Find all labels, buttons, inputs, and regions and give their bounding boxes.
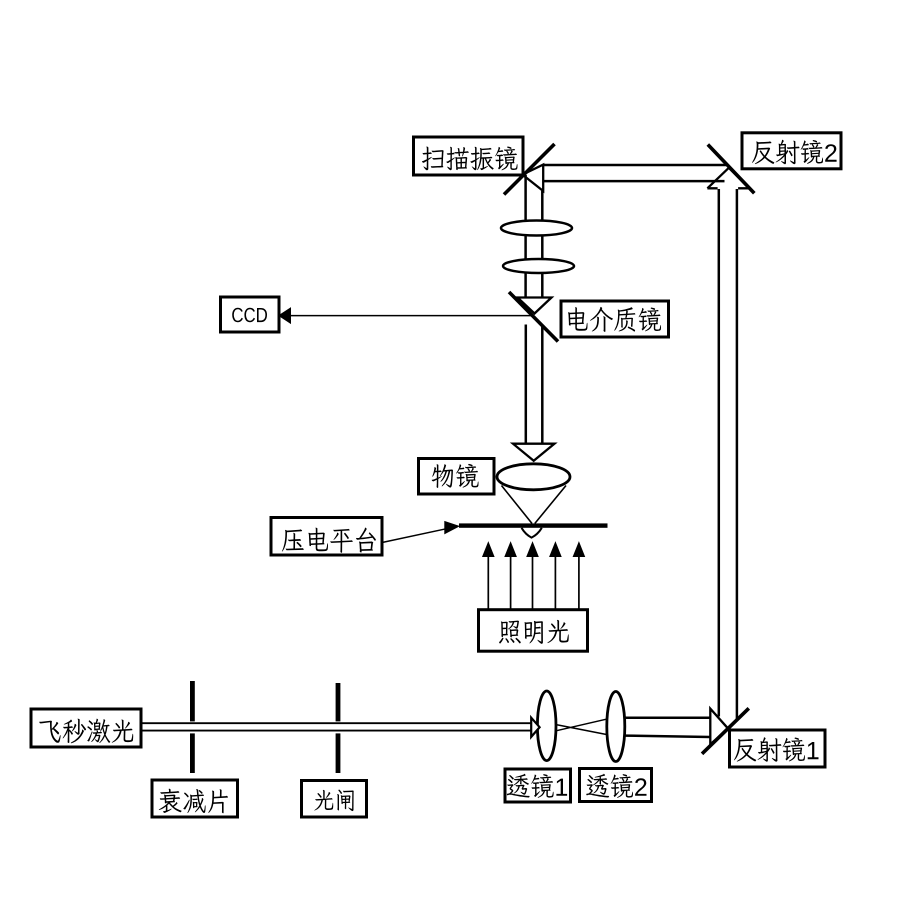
shutter plate (vertical bar, lower segment) bbox=[336, 733, 341, 773]
beam arrowhead at mirror 1 (points right) bbox=[710, 709, 728, 745]
scan lens L1 (ellipse) bbox=[501, 221, 572, 236]
beam shaft: scanning mirror down to dielectric mirror (right line) bbox=[541, 191, 544, 298]
label box 扫描振镜 (scanning galvo mirror) bbox=[414, 137, 524, 175]
objective lens body (ellipse) bbox=[497, 464, 570, 490]
illumination arrow 2 (up) bbox=[510, 555, 512, 611]
focal spot below stage bbox=[522, 528, 542, 538]
beam arrowhead at mirror 2 (points up) bbox=[707, 168, 749, 189]
piezo stage platform (thick bar) bbox=[459, 523, 608, 527]
beam shaft: dielectric mirror down to objective (left line) bbox=[525, 325, 528, 445]
shutter plate (vertical bar, upper segment) bbox=[336, 683, 341, 721]
label box 飞秒激光 (femtosecond laser) bbox=[31, 709, 141, 747]
beam arrowhead at dielectric mirror (points down) bbox=[518, 298, 552, 314]
thin arrow from 压电平台 label to stage bbox=[382, 529, 447, 543]
beam shaft: lens2 to mirror1 (top line) bbox=[625, 717, 710, 720]
label box 反射镜2 (mirror 2) bbox=[742, 133, 841, 169]
illumination arrow 3 (up) bbox=[532, 555, 534, 611]
beam shaft: mirror2 to scanning mirror (top line) bbox=[543, 164, 726, 167]
beam shaft: mirror2 to scanning mirror (bottom line) bbox=[543, 180, 724, 183]
label box 照明光 (illumination light) bbox=[479, 610, 588, 652]
crossing rays between lens1 and lens2 bbox=[556, 719, 607, 734]
illumination arrow 4 (up) bbox=[554, 555, 556, 611]
objective focus cone bbox=[502, 486, 567, 524]
beam shaft: lens2 to mirror1 (bottom line) bbox=[625, 736, 710, 737]
beam arrowhead at objective (points down) bbox=[513, 444, 555, 461]
beam shaft: scanning mirror down to dielectric mirror (left line) bbox=[524, 175, 527, 298]
label box CCD bbox=[221, 297, 280, 332]
label box 透镜2 (lens 2) bbox=[580, 769, 652, 802]
beam shaft: mirror1 up to mirror2 (right line) bbox=[736, 189, 739, 720]
beam arrowhead at scanning mirror (points left) bbox=[523, 165, 544, 191]
label box 透镜1 (lens 1) bbox=[505, 769, 571, 802]
mirror 1 surface (diagonal) bbox=[702, 708, 749, 754]
label box 反射镜1 (mirror 1) bbox=[730, 730, 826, 767]
label box 物镜 (objective) bbox=[419, 459, 495, 495]
label box 压电平台 (piezo stage) bbox=[271, 518, 382, 556]
scanning galvo mirror surface (diagonal) bbox=[504, 144, 555, 195]
lens 2 (ellipse) bbox=[607, 692, 625, 762]
dielectric mirror surface (diagonal) bbox=[509, 292, 558, 342]
scan lens L2 (ellipse) bbox=[503, 259, 574, 273]
beam shaft: mirror1 up to mirror2 (left line) bbox=[718, 189, 721, 717]
attenuator plate (vertical bar, upper segment) bbox=[190, 681, 195, 721]
lens 1 (ellipse) bbox=[537, 691, 556, 761]
open arrowhead at lens1 bbox=[531, 718, 539, 737]
label box 光闸 (shutter) bbox=[302, 781, 367, 818]
label box 电介质镜 (dielectric mirror) bbox=[561, 301, 669, 337]
illumination arrow 1 (up) bbox=[487, 555, 489, 611]
laser beam: laser to lens1 (double line) bbox=[141, 722, 532, 724]
beam shaft: dielectric mirror down to objective (right line) bbox=[541, 327, 544, 445]
label box 衰减片 (attenuator) bbox=[152, 780, 238, 817]
illumination arrow 5 (up) bbox=[578, 555, 580, 611]
attenuator plate (vertical bar, lower segment) bbox=[190, 733, 195, 773]
thin arrow from dielectric mirror to CCD bbox=[289, 315, 532, 317]
mirror 2 surface (diagonal) bbox=[708, 145, 755, 194]
